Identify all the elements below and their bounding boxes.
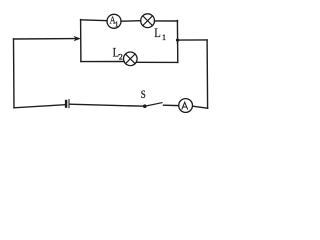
node B: faint scan speck below junction — [177, 42, 179, 44]
wire: parallel section left vertical — [80, 20, 82, 62]
battery cell: long thin positive plate — [68, 100, 70, 108]
wire: outer left vertical — [13, 39, 16, 108]
lamp L1: cross stroke 2 — [143, 16, 153, 26]
lamp L2: cross stroke 2 — [126, 54, 136, 64]
switch S: pivot contact dot — [143, 105, 146, 108]
wire: lamp L1 to right node — [155, 20, 178, 22]
ammeter A: circle — [179, 99, 193, 113]
svg-text:2: 2 — [119, 53, 123, 62]
svg-text:S: S — [141, 87, 146, 101]
wire: ammeter A1 to lamp L1 — [121, 20, 141, 23]
wire: outer right vertical — [206, 40, 209, 108]
wire: ammeter to bottom-right corner — [193, 106, 208, 108]
svg-text:1: 1 — [162, 33, 166, 42]
lamp L1: cross stroke 1 — [143, 16, 153, 26]
switch S: open blade — [146, 103, 162, 106]
wire: outer top-right horizontal — [178, 39, 208, 41]
ammeter A1: circle — [107, 14, 121, 28]
wire: switch to ammeter A — [164, 104, 179, 106]
ammeter A: label — [182, 102, 188, 109]
wire: outer top-left horizontal with current arrow — [14, 38, 76, 40]
wire: battery to switch — [70, 104, 144, 106]
wire: bottom branch, node to lamp L2 — [81, 61, 124, 63]
wire: parallel section right vertical — [176, 20, 178, 62]
battery cell: short thick negative plate — [65, 101, 67, 107]
lamp L1: circle — [141, 14, 155, 28]
wire: top branch, node to ammeter A1 — [81, 19, 108, 22]
svg-text:L: L — [154, 25, 161, 40]
lamp L2: circle — [124, 52, 138, 66]
svg-text:1: 1 — [115, 20, 119, 28]
wire: lamp L2 to right node — [136, 61, 178, 63]
node A: arrowhead at junction with parallel section — [74, 36, 82, 41]
node B: junction dot on right side of parallel section — [176, 39, 179, 42]
lamp L2: cross stroke 1 — [126, 54, 136, 64]
wire: bottom left (to battery) — [14, 105, 65, 108]
